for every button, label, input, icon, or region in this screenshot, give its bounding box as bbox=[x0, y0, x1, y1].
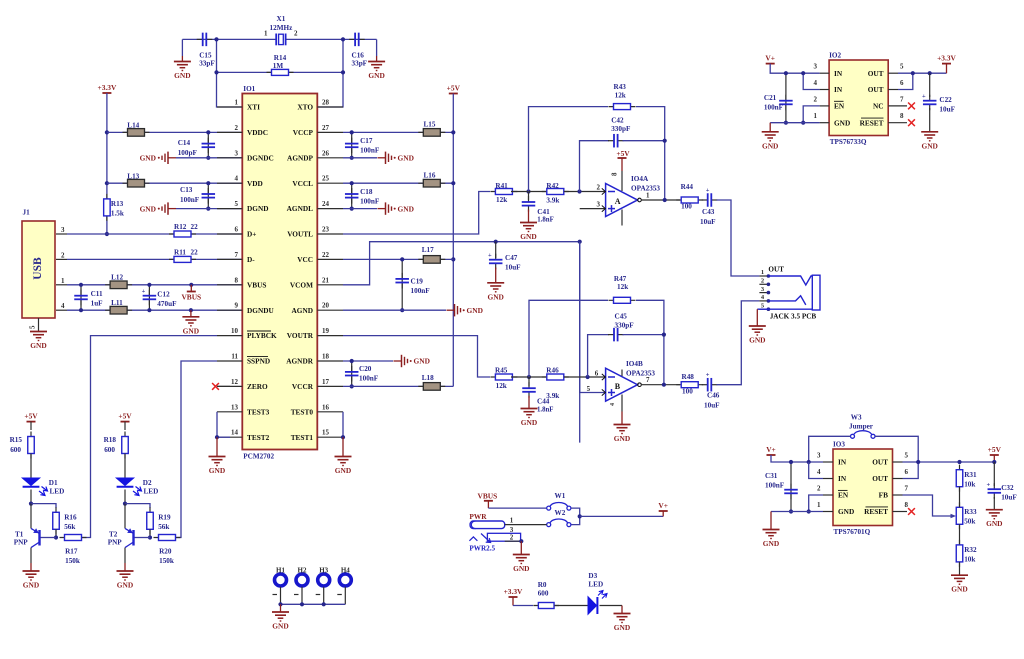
ground below C15 bbox=[181, 39, 183, 56]
svg-text:EN: EN bbox=[834, 102, 845, 111]
svg-text:TEST1: TEST1 bbox=[291, 433, 314, 442]
svg-text:C15: C15 bbox=[199, 52, 212, 60]
resistor R11 bbox=[169, 256, 196, 262]
svg-text:PNP: PNP bbox=[14, 539, 29, 547]
resistor R14 bbox=[267, 69, 294, 75]
power +3.3V IO2 bbox=[937, 54, 956, 74]
svg-text:RESET: RESET bbox=[864, 507, 888, 516]
svg-text:VCCP: VCCP bbox=[293, 128, 314, 137]
ic IO2 TPS76733Q bbox=[829, 60, 888, 136]
node bias junction bbox=[578, 240, 582, 244]
power +3.3V R0 bbox=[504, 587, 523, 597]
svg-text:C32: C32 bbox=[1001, 484, 1014, 492]
svg-text:IO3: IO3 bbox=[833, 441, 845, 449]
resistor R42 bbox=[542, 189, 569, 195]
svg-text:100nF: 100nF bbox=[360, 147, 380, 155]
svg-text:TEST0: TEST0 bbox=[291, 407, 314, 416]
svg-text:8: 8 bbox=[611, 172, 619, 176]
resistor R41 bbox=[490, 189, 517, 195]
svg-text:600: 600 bbox=[538, 590, 549, 598]
svg-text:VCC: VCC bbox=[297, 255, 313, 264]
svg-text:10uF: 10uF bbox=[700, 218, 716, 226]
wire OUT row IO3 bbox=[903, 461, 995, 463]
wire R18 to D2 bbox=[124, 454, 126, 479]
svg-text:1: 1 bbox=[817, 501, 821, 509]
svg-text:L14: L14 bbox=[127, 122, 139, 130]
svg-text:3.9k: 3.9k bbox=[546, 197, 559, 205]
svg-text:12k: 12k bbox=[617, 283, 628, 291]
svg-text:OUT: OUT bbox=[868, 85, 884, 94]
svg-text:R41: R41 bbox=[495, 182, 508, 190]
svg-text:100nF: 100nF bbox=[180, 196, 200, 204]
svg-text:+5V: +5V bbox=[447, 84, 461, 93]
wire R19 to base node bbox=[149, 529, 151, 537]
LED D1 bbox=[22, 478, 47, 496]
power V+ IO3 bbox=[766, 445, 776, 455]
wire C46 to jack pin4 bbox=[717, 301, 760, 385]
node bias C47 bbox=[494, 240, 498, 244]
svg-text:R15: R15 bbox=[10, 436, 23, 444]
svg-text:GND: GND bbox=[614, 434, 630, 443]
svg-text:R44: R44 bbox=[681, 183, 694, 191]
svg-text:L13: L13 bbox=[127, 172, 139, 180]
pin IO3 left IN bbox=[823, 461, 833, 463]
svg-text:1.8nF: 1.8nF bbox=[537, 407, 553, 414]
svg-text:22: 22 bbox=[322, 251, 330, 259]
svg-text:C31: C31 bbox=[765, 472, 778, 480]
wire +5V to R15 bbox=[30, 422, 32, 430]
svg-text:C46: C46 bbox=[707, 392, 720, 400]
wire XTO vertical bbox=[317, 39, 343, 107]
pin IO3 right OUT bbox=[893, 478, 903, 480]
no-connect NC IO2 bbox=[908, 103, 915, 110]
svg-text:100nF: 100nF bbox=[765, 482, 785, 490]
svg-text:1uF: 1uF bbox=[91, 300, 104, 308]
pin IO2 left GND bbox=[820, 122, 830, 124]
capacitor C31 bbox=[790, 462, 792, 512]
svg-text:3: 3 bbox=[817, 452, 821, 460]
svg-text:7: 7 bbox=[905, 485, 909, 493]
wire C43 to jack pin1 bbox=[717, 200, 760, 276]
inductor L12 bbox=[105, 281, 132, 289]
svg-text:H1: H1 bbox=[276, 567, 285, 575]
svg-text:6: 6 bbox=[235, 226, 239, 234]
capacitor C16 bbox=[349, 33, 365, 47]
wire EN to GND row IO3 bbox=[809, 495, 823, 512]
svg-text:IN: IN bbox=[834, 85, 843, 94]
svg-text:GND: GND bbox=[513, 564, 529, 573]
wire R16 to base node bbox=[55, 529, 57, 537]
wire D+ row bbox=[67, 233, 242, 235]
wire +5V to R18 bbox=[124, 422, 126, 430]
pin J1-4 bbox=[56, 309, 67, 311]
svg-text:3: 3 bbox=[597, 201, 601, 209]
svg-text:1.8nF: 1.8nF bbox=[537, 217, 553, 224]
ground TEST right bbox=[342, 437, 344, 456]
svg-text:Jumper: Jumper bbox=[849, 423, 874, 431]
svg-text:C41: C41 bbox=[537, 208, 550, 216]
svg-text:+: + bbox=[987, 482, 991, 489]
wire nodeB to R46 bbox=[511, 376, 546, 378]
ground IO2 left bbox=[769, 123, 771, 132]
svg-text:L15: L15 bbox=[424, 121, 436, 129]
svg-text:C22: C22 bbox=[939, 96, 952, 104]
ground PWR bbox=[520, 541, 522, 554]
pin JACK-1 bbox=[759, 275, 768, 277]
svg-text:R11: R11 bbox=[174, 248, 186, 256]
power +5V IO3 bbox=[988, 445, 1002, 462]
svg-text:56k: 56k bbox=[158, 523, 169, 531]
pin IO1-6 D+ bbox=[217, 233, 242, 235]
svg-text:C44: C44 bbox=[537, 398, 550, 406]
resistor R20 bbox=[154, 535, 181, 541]
power +5V T1 bbox=[24, 412, 38, 422]
wire R47 to output column bbox=[636, 300, 664, 384]
ground flag AGND bbox=[447, 304, 483, 316]
svg-text:1: 1 bbox=[646, 192, 650, 200]
wire FB net bbox=[903, 495, 952, 516]
svg-text:1: 1 bbox=[814, 112, 818, 120]
wire AGNDR row bbox=[343, 360, 393, 362]
ground below T1 bbox=[30, 563, 32, 571]
svg-text:5: 5 bbox=[235, 200, 239, 208]
power +5V rail bbox=[447, 84, 461, 94]
svg-text:R17: R17 bbox=[65, 548, 78, 556]
wire jack ring contact bbox=[768, 296, 805, 305]
ground TEST left bbox=[216, 437, 218, 456]
svg-text:A: A bbox=[615, 197, 621, 206]
inductor L16 bbox=[418, 179, 445, 187]
svg-text:1: 1 bbox=[264, 30, 268, 38]
svg-text:2: 2 bbox=[817, 485, 821, 493]
svg-text:LED: LED bbox=[50, 488, 65, 496]
svg-text:GND: GND bbox=[272, 622, 288, 631]
svg-text:C21: C21 bbox=[764, 94, 777, 102]
wire R14 row bbox=[217, 71, 344, 73]
svg-text:GND: GND bbox=[174, 71, 190, 80]
node inverting input bbox=[577, 189, 581, 193]
pin IO3 right OUT bbox=[893, 461, 903, 463]
resistor R43 bbox=[609, 104, 636, 110]
wire jack sleeve bbox=[757, 308, 812, 310]
svg-text:GND: GND bbox=[834, 118, 850, 127]
node B filter bbox=[527, 375, 531, 379]
svg-text:2: 2 bbox=[814, 95, 818, 103]
svg-text:R16: R16 bbox=[64, 514, 77, 522]
svg-text:LED: LED bbox=[144, 488, 159, 496]
svg-text:3: 3 bbox=[814, 63, 818, 71]
svg-text:PWR2.5: PWR2.5 bbox=[469, 545, 495, 553]
pin IO1-17 VCCR bbox=[317, 385, 343, 387]
capacitor C11 bbox=[80, 285, 82, 310]
pin IO1-11 SSPND bbox=[217, 360, 242, 362]
inductor L17 bbox=[418, 256, 445, 264]
pin IO3 left IN bbox=[823, 478, 833, 480]
wire R43 to output column bbox=[636, 107, 665, 200]
wire opamp B output bbox=[641, 384, 680, 386]
capacitor C32 bbox=[993, 462, 995, 486]
pin IO1-13 TEST3 bbox=[217, 411, 242, 413]
svg-text:L17: L17 bbox=[422, 246, 434, 254]
svg-text:PLYBCK: PLYBCK bbox=[247, 331, 277, 340]
wire R43 feedback bbox=[529, 107, 609, 192]
svg-text:R12: R12 bbox=[174, 223, 187, 231]
pin J1-2 bbox=[56, 258, 67, 260]
wire D3 to ground bbox=[600, 605, 623, 607]
capacitor C19 bbox=[401, 259, 403, 310]
wire hole ground bus bbox=[281, 603, 346, 605]
svg-text:GND: GND bbox=[520, 232, 536, 241]
resistor R16 bbox=[53, 507, 60, 534]
svg-text:C11: C11 bbox=[91, 290, 103, 298]
svg-text:12k: 12k bbox=[615, 92, 626, 100]
svg-text:OUT: OUT bbox=[768, 265, 784, 273]
svg-text:LED: LED bbox=[588, 580, 603, 588]
svg-text:R46: R46 bbox=[546, 367, 559, 375]
wire OUT2 loop bbox=[898, 73, 913, 89]
svg-text:7: 7 bbox=[646, 376, 650, 384]
power port VBUS bbox=[189, 283, 193, 287]
svg-text:21: 21 bbox=[322, 276, 330, 284]
pin IO1-21 VCOM bbox=[317, 284, 343, 286]
pin IO1-26 AGNDP bbox=[317, 157, 343, 159]
pin IO1-16 TEST0 bbox=[317, 411, 343, 413]
svg-text:22: 22 bbox=[191, 248, 199, 256]
svg-text:C18: C18 bbox=[360, 188, 373, 196]
svg-text:VBUS: VBUS bbox=[247, 280, 266, 289]
ground flag DGND bbox=[140, 202, 176, 214]
resistor R48 bbox=[676, 382, 703, 388]
ground below C44 bbox=[528, 396, 530, 409]
pin IO2 right RESET bbox=[888, 122, 907, 124]
LED D3 bbox=[588, 591, 607, 615]
wire +3.3V to R0 bbox=[513, 605, 533, 607]
svg-text:2: 2 bbox=[294, 30, 298, 38]
svg-text:VCCL: VCCL bbox=[292, 179, 313, 188]
wire D2 to node bbox=[124, 490, 126, 504]
svg-text:L12: L12 bbox=[111, 274, 123, 282]
wire VCCL row bbox=[343, 182, 453, 184]
wire V+ net bbox=[580, 515, 664, 517]
svg-text:C19: C19 bbox=[411, 278, 424, 286]
mounting hole H1 bbox=[275, 574, 287, 586]
wire W3 left bbox=[809, 436, 851, 462]
svg-text:W3: W3 bbox=[851, 414, 862, 422]
wire R33 to R32 bbox=[959, 524, 961, 545]
node C45 output junction bbox=[662, 333, 666, 337]
svg-text:C45: C45 bbox=[615, 313, 628, 321]
svg-text:600: 600 bbox=[10, 446, 21, 454]
wire VOUTL to R41 bbox=[343, 192, 490, 235]
svg-text:IO1: IO1 bbox=[243, 85, 255, 93]
svg-text:100nF: 100nF bbox=[411, 287, 431, 295]
svg-text:12: 12 bbox=[231, 378, 239, 386]
ground below T2 bbox=[124, 563, 126, 571]
svg-text:100pF: 100pF bbox=[178, 149, 198, 157]
svg-text:DGNDU: DGNDU bbox=[247, 306, 274, 315]
svg-text:5: 5 bbox=[29, 325, 37, 329]
mounting hole H4 bbox=[339, 574, 351, 586]
crystal X1 bbox=[276, 34, 285, 46]
svg-text:TPS76701Q: TPS76701Q bbox=[834, 528, 871, 536]
svg-text:C14: C14 bbox=[178, 139, 191, 147]
ground D3 bbox=[621, 606, 623, 614]
svg-text:FB: FB bbox=[879, 491, 888, 500]
svg-text:GND: GND bbox=[209, 466, 225, 475]
wire DGNDC row bbox=[176, 157, 242, 159]
power +5V opamp A bbox=[616, 149, 630, 158]
svg-text:VOUTL: VOUTL bbox=[287, 230, 313, 239]
pin IO1-5 DGND bbox=[217, 208, 242, 210]
node R31 top bbox=[957, 460, 961, 464]
wire W1 to V+ node bbox=[571, 508, 580, 524]
node A filter bbox=[526, 189, 530, 193]
wire VBUS row bbox=[67, 284, 242, 286]
svg-text:20: 20 bbox=[322, 302, 330, 310]
svg-text:D+: D+ bbox=[247, 230, 256, 239]
pin IO1-1 XTI bbox=[217, 106, 242, 108]
pin IO3 left EN bbox=[823, 494, 833, 496]
svg-text:+: + bbox=[922, 93, 926, 100]
pin IO1-18 AGNDR bbox=[317, 360, 343, 362]
wire R46 to inverting input B bbox=[564, 376, 606, 378]
pin IO3 left GND bbox=[823, 511, 833, 513]
svg-text:R31: R31 bbox=[964, 471, 977, 479]
svg-text:12MHz: 12MHz bbox=[270, 24, 294, 32]
svg-text:GND: GND bbox=[117, 581, 133, 590]
wire opamp A output bbox=[641, 199, 680, 201]
wire SSPND net bbox=[175, 361, 217, 538]
svg-text:D1: D1 bbox=[49, 479, 58, 487]
wire GND row IO3 bbox=[771, 511, 823, 513]
svg-text:IN: IN bbox=[838, 474, 847, 483]
svg-text:H2: H2 bbox=[298, 567, 307, 575]
svg-text:T2: T2 bbox=[109, 531, 118, 539]
svg-text:8: 8 bbox=[905, 501, 909, 509]
svg-text:IO2: IO2 bbox=[829, 52, 841, 60]
svg-text:3: 3 bbox=[61, 226, 65, 234]
wire base node to T1 bbox=[40, 537, 56, 539]
svg-text:D2: D2 bbox=[143, 479, 152, 487]
pin IO2 left IN bbox=[820, 89, 830, 91]
svg-text:19: 19 bbox=[322, 327, 330, 335]
node output B bbox=[662, 383, 666, 387]
svg-text:R0: R0 bbox=[538, 581, 547, 589]
pin JACK-2 bbox=[759, 283, 768, 285]
resistor R45 bbox=[490, 374, 517, 380]
jumper W2 bbox=[547, 519, 571, 527]
wire R47 feedback bbox=[529, 300, 608, 377]
node inverting input B bbox=[586, 375, 590, 379]
svg-text:17: 17 bbox=[322, 378, 330, 386]
pin IO1-14 TEST2 bbox=[217, 436, 242, 438]
transistor T2 PNP bbox=[125, 504, 134, 563]
svg-text:GND: GND bbox=[140, 204, 156, 213]
svg-text:4: 4 bbox=[610, 403, 616, 406]
svg-text:2: 2 bbox=[235, 124, 239, 132]
svg-text:10uF: 10uF bbox=[704, 402, 720, 410]
wire TEST3/TEST2 to ground bbox=[216, 412, 218, 437]
svg-text:33pF: 33pF bbox=[199, 60, 215, 68]
pin IO2 left EN bbox=[820, 105, 830, 107]
ground jack bbox=[756, 309, 758, 326]
svg-text:OUT: OUT bbox=[872, 474, 888, 483]
node LED2 cathode bbox=[123, 502, 127, 506]
LED D2 bbox=[116, 478, 141, 496]
svg-text:C12: C12 bbox=[157, 291, 170, 299]
capacitor C13 bbox=[207, 183, 209, 208]
svg-text:25: 25 bbox=[322, 175, 330, 183]
svg-text:GND: GND bbox=[763, 539, 779, 548]
svg-text:RESET: RESET bbox=[860, 118, 884, 127]
svg-text:+3.3V: +3.3V bbox=[504, 587, 523, 596]
mounting hole H3 bbox=[318, 574, 330, 586]
op-amp IO4B OPA2353 bbox=[602, 368, 642, 411]
svg-text:GND: GND bbox=[521, 418, 537, 427]
ground IO3 left bbox=[770, 512, 772, 530]
svg-text:VDDC: VDDC bbox=[247, 128, 268, 137]
svg-text:50k: 50k bbox=[964, 518, 975, 526]
svg-text:GND: GND bbox=[398, 154, 414, 163]
svg-text:GND: GND bbox=[335, 466, 351, 475]
svg-text:AGNDR: AGNDR bbox=[286, 357, 313, 366]
node C13 bottom bbox=[206, 207, 210, 211]
capacitor C44 bbox=[528, 377, 530, 386]
svg-text:150k: 150k bbox=[65, 557, 80, 565]
node W junction bbox=[578, 514, 582, 518]
svg-text:6: 6 bbox=[905, 468, 909, 476]
svg-text:IO4B: IO4B bbox=[626, 360, 643, 368]
svg-text:VBUS: VBUS bbox=[181, 293, 201, 302]
pin IO1-27 VCCP bbox=[317, 131, 343, 133]
svg-text:GND: GND bbox=[140, 154, 156, 163]
svg-text:12k: 12k bbox=[496, 196, 507, 204]
ground flag AGNDP bbox=[378, 152, 414, 164]
svg-text:150k: 150k bbox=[159, 557, 174, 565]
svg-text:11: 11 bbox=[231, 353, 238, 361]
svg-text:VBUS: VBUS bbox=[478, 492, 498, 501]
svg-text:SSPND: SSPND bbox=[247, 357, 270, 366]
power V+ IO2 bbox=[765, 54, 775, 64]
wire W3 right bbox=[875, 436, 918, 462]
svg-text:GND: GND bbox=[30, 341, 46, 350]
resistor R0 bbox=[533, 603, 559, 609]
ground below C32 bbox=[993, 497, 995, 510]
svg-text:2: 2 bbox=[597, 184, 601, 192]
power V+ W bbox=[659, 510, 668, 512]
svg-text:+3.3V: +3.3V bbox=[937, 54, 956, 63]
svg-text:8: 8 bbox=[235, 276, 239, 284]
svg-text:GND: GND bbox=[921, 141, 937, 150]
pin IO1-3 DGNDC bbox=[217, 157, 242, 159]
svg-text:27: 27 bbox=[322, 124, 330, 132]
pin IO1-2 VDDC bbox=[217, 131, 242, 133]
wire VOUTR to R45 bbox=[343, 336, 490, 377]
svg-text:7: 7 bbox=[900, 95, 904, 103]
svg-text:H3: H3 bbox=[319, 567, 328, 575]
svg-text:W2: W2 bbox=[555, 509, 566, 517]
wire VCCR row bbox=[343, 385, 453, 387]
svg-text:10k: 10k bbox=[964, 556, 975, 564]
inductor L15 bbox=[418, 129, 445, 137]
pin PWR-1 bbox=[505, 524, 547, 526]
node C13 top bbox=[206, 181, 210, 185]
capacitor C15 bbox=[197, 33, 213, 47]
node C32 top bbox=[992, 460, 996, 464]
svg-text:L11: L11 bbox=[111, 299, 123, 307]
svg-text:1M: 1M bbox=[273, 62, 284, 70]
svg-text:R32: R32 bbox=[964, 546, 977, 554]
